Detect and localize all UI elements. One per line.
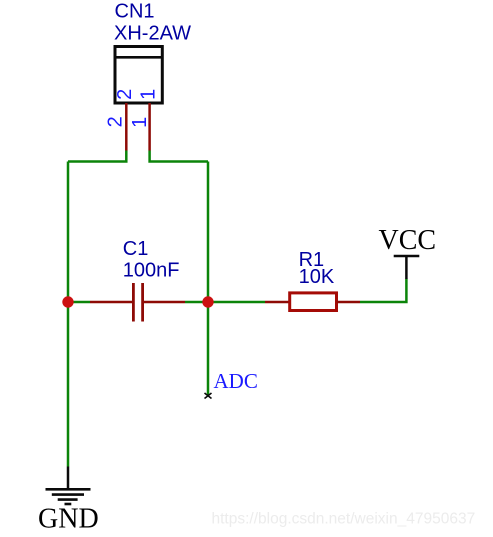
- svg-text:https://blog.csdn.net/weixin_4: https://blog.csdn.net/weixin_47950637: [212, 511, 476, 528]
- wire left rail vertical: [67, 162, 70, 467]
- svg-text:ADC: ADC: [214, 369, 258, 393]
- resistor R1 right lead: [337, 301, 361, 304]
- wire right node to resistor: [208, 301, 265, 304]
- svg-text:CN1: CN1: [115, 0, 155, 22]
- resistor R1 left lead: [265, 301, 290, 304]
- svg-text:C1: C1: [123, 238, 149, 260]
- wire pin1 to right rail: [150, 151, 208, 162]
- capacitor C1 left lead: [90, 301, 132, 304]
- svg-text:VCC: VCC: [379, 225, 437, 256]
- svg-text:1: 1: [137, 89, 159, 100]
- power symbol VCC bar: [394, 256, 420, 279]
- capacitor C1 left plate: [132, 283, 135, 322]
- wire right rail vertical: [207, 162, 210, 303]
- wire capacitor to right node: [185, 301, 208, 304]
- capacitor C1 right plate: [141, 283, 144, 322]
- no-connect cross at ADC stub end: [205, 393, 212, 399]
- connector CN1 pin 1 lead: [148, 103, 151, 151]
- svg-text:XH-2AW: XH-2AW: [114, 22, 191, 44]
- wire left node to capacitor: [68, 301, 90, 304]
- connector CN1 pin 2 lead: [125, 103, 128, 151]
- wire ADC stub: [207, 302, 210, 396]
- junction node ADC: [202, 296, 213, 307]
- ground symbol: [46, 467, 91, 505]
- svg-text:1: 1: [129, 117, 151, 128]
- connector CN1 body: [115, 47, 162, 104]
- wire resistor to VCC corner: [360, 279, 406, 302]
- resistor R1 body: [290, 293, 337, 311]
- svg-text:2: 2: [114, 89, 136, 100]
- svg-text:GND: GND: [38, 504, 99, 535]
- svg-text:100nF: 100nF: [123, 259, 180, 281]
- wire pin2 to left rail: [68, 151, 126, 162]
- capacitor C1 right lead: [144, 301, 185, 304]
- svg-text:2: 2: [105, 116, 127, 127]
- svg-text:10K: 10K: [299, 266, 335, 288]
- junction node at C1 left: [62, 296, 73, 307]
